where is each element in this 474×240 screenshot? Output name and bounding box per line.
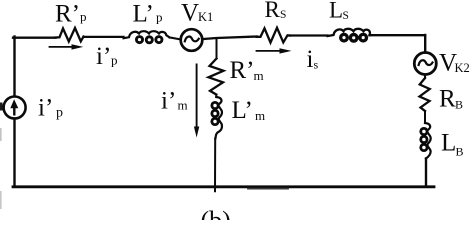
svg-text:p: p [80,9,87,24]
label L'm [232,97,266,124]
wire: R'm to L'm [215,95,217,98]
label VK1 [181,0,213,27]
svg-text:B: B [455,98,463,112]
wire: top rail between R'p and L'p [84,36,124,38]
wire: top rail VK1 to RS, passing node of middle branch [203,37,256,40]
label LS [329,0,349,23]
label is current [307,46,319,73]
svg-text:m: m [255,108,265,123]
wire: bottom rail [13,185,434,188]
svg-text:i’: i’ [38,95,53,122]
svg-text:R: R [439,86,456,113]
wire: right branch from top rail to VK2 [424,35,426,53]
svg-text:(b): (b) [201,206,231,220]
current arrow i'm (middle branch, pointing down) [194,65,199,138]
wire: middle branch from node to R'm [216,38,218,59]
label i'p current (top) [96,43,118,70]
label L'p [133,1,163,28]
svg-text:i’: i’ [161,88,176,115]
label LB [441,130,464,159]
wire: top rail between RS and LS [290,34,328,36]
inductor LS [328,29,371,41]
label R'p [55,1,87,28]
wire: LB to bottom rail [425,159,427,187]
svg-text:B: B [456,145,464,159]
label RB [439,86,463,113]
svg-text:L: L [329,0,343,23]
svg-text:m: m [254,68,264,83]
AC source VK2 sine symbol [419,60,433,65]
AC source VK1 circle [181,29,203,51]
svg-text:V: V [181,0,199,27]
wire: RB to LB [424,111,426,123]
label VK2 [439,50,470,77]
svg-text:S: S [280,9,286,21]
label RS [265,0,287,22]
svg-text:i’: i’ [96,43,111,70]
wire: top rail between L'p and VK1 [170,37,181,39]
current source i'p arrow [10,99,18,115]
current arrow i'p (top, under R'p) [50,44,84,49]
svg-text:K2: K2 [455,61,470,75]
wire: L'm to bottom rail [214,139,216,192]
scan artifact left edge [0,103,3,111]
wire: left vertical lower segment [13,119,15,187]
svg-text:S: S [343,10,349,22]
wire: left vertical upper segment [13,37,15,97]
inductor L'p [124,31,170,43]
resistor RB [420,78,430,111]
inductor L'm [212,97,222,139]
current arrow is (under RS) [257,48,292,53]
svg-text:L’: L’ [232,97,253,124]
wire: top rail right segment [370,34,426,36]
AC source VK2 circle [414,53,436,75]
label R'm [230,57,264,84]
label i'm current [161,88,188,115]
svg-text:p: p [156,10,163,25]
current source i'p circle [4,97,26,119]
resistor R'p [56,28,84,42]
svg-text:R: R [265,0,281,22]
svg-text:K1: K1 [198,10,213,24]
wire: VK2 to RB [424,75,426,78]
svg-text:p: p [56,106,63,121]
svg-text:p: p [111,53,118,68]
label i'p source (left) [38,95,63,122]
AC source VK1 sine symbol [185,37,199,42]
svg-text:L: L [441,130,456,157]
svg-text:m: m [178,98,188,113]
rough rail patch (scan noise) [248,188,288,190]
resistor RS [257,28,291,43]
resistor R'm [209,59,224,95]
svg-text:s: s [314,58,319,72]
svg-text:L’: L’ [133,1,154,28]
svg-text:R’: R’ [230,57,255,84]
svg-text:R’: R’ [55,1,80,28]
svg-text:i: i [307,46,314,73]
wire: top rail left segment [13,37,56,39]
inductor LB [421,123,431,159]
